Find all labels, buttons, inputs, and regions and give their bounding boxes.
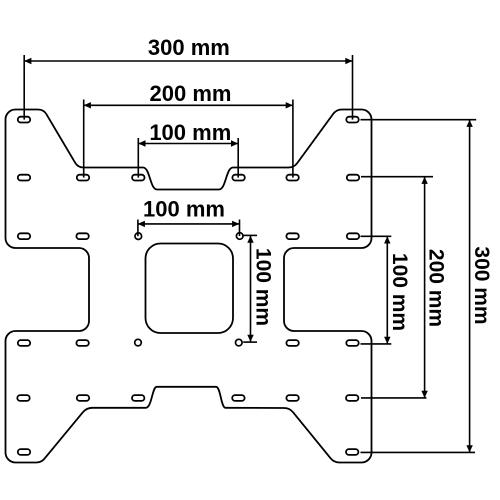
central square hole xyxy=(146,244,234,334)
slot R2C4 xyxy=(232,175,244,181)
dim D6 right 100mm: bottom arrowhead xyxy=(384,337,390,344)
dim D2 200mm: extension line left xyxy=(83,100,85,178)
dim D7 right 200mm: leader top xyxy=(361,176,433,178)
dim D5 central vertical 100mm: leader top xyxy=(243,234,257,236)
slot R3C6 xyxy=(347,233,359,239)
dim D3 100mm upper: left arrowhead xyxy=(138,140,145,146)
dim D1 300mm top: extension line right xyxy=(352,55,354,120)
slot R5C1 xyxy=(17,395,29,401)
slot R2C2 xyxy=(77,175,89,181)
dim D5 central vertical 100mm: top arrowhead xyxy=(247,236,253,243)
slot R2C5 xyxy=(286,175,298,181)
slot R3C2 xyxy=(76,233,88,239)
dim D4 100mm middle: left arrowhead xyxy=(138,221,145,227)
slot R1C6 xyxy=(346,117,358,123)
circle hole bottom-left xyxy=(135,339,142,346)
dim D5 central vertical 100mm: leader bottom xyxy=(243,341,257,343)
slot R5C2 xyxy=(77,395,89,401)
slot R2C3 xyxy=(132,175,144,181)
svg-text:100 mm: 100 mm xyxy=(149,120,231,145)
slot R4C1 xyxy=(18,340,30,346)
slot R3C5 xyxy=(286,233,298,239)
dim D1 300mm top: dimension line xyxy=(24,60,352,62)
dim D4 100mm middle: extension tick left xyxy=(137,220,139,237)
svg-text:300 mm: 300 mm xyxy=(148,35,230,60)
svg-text:300 mm: 300 mm xyxy=(470,246,493,324)
dim D2 200mm: left arrowhead xyxy=(84,102,91,108)
dim D4 100mm middle: right arrowhead xyxy=(232,221,239,227)
slot R2C6 xyxy=(347,175,359,181)
dim D2 200mm: extension line right xyxy=(292,100,294,178)
dim D3 100mm upper: right arrowhead xyxy=(231,140,238,146)
dim D4 100mm middle: dimension line xyxy=(138,223,240,225)
slot R4C2 xyxy=(76,340,88,346)
circle hole bottom-right xyxy=(236,339,243,346)
dim D7 right 200mm: top arrowhead xyxy=(421,177,427,184)
slot R4C5 xyxy=(286,340,298,346)
dim D1 300mm top: extension line left xyxy=(23,55,25,120)
dim D1 300mm top: right arrowhead xyxy=(345,58,352,64)
dim D8 right 300mm: leader top xyxy=(361,119,477,121)
slot R3C1 xyxy=(18,233,30,239)
dim D2 200mm: right arrowhead xyxy=(286,102,293,108)
plate outline xyxy=(6,110,372,463)
dim D3 100mm upper: extension line left xyxy=(137,138,139,178)
circle hole top-right xyxy=(236,233,243,240)
dim D7 right 200mm: dimension line xyxy=(424,177,426,398)
slot R5C6 xyxy=(346,395,358,401)
dim D5 central vertical 100mm: bottom arrowhead xyxy=(247,335,253,342)
dim D1 300mm top: left arrowhead xyxy=(24,58,31,64)
dim D8 right 300mm: leader bottom xyxy=(361,451,476,453)
slot R5C4 xyxy=(232,395,244,401)
dim D2 200mm: dimension line xyxy=(84,104,293,106)
dim D8 right 300mm: top arrowhead xyxy=(466,120,472,127)
slot R5C3 xyxy=(132,395,144,401)
dim D3 100mm upper: dimension line xyxy=(138,143,238,145)
slot R6C6 xyxy=(346,449,358,455)
slot R5C5 xyxy=(286,395,298,401)
dim D6 right 100mm: leader top xyxy=(361,235,392,237)
dim D8 right 300mm: bottom arrowhead xyxy=(466,445,472,452)
dim D6 right 100mm: dimension line xyxy=(386,236,388,344)
slot R6C1 xyxy=(18,449,30,455)
dim D6 right 100mm: leader bottom xyxy=(361,343,392,345)
svg-text:100 mm: 100 mm xyxy=(143,196,225,221)
dim D7 right 200mm: bottom arrowhead xyxy=(421,391,427,398)
slot R2C1 xyxy=(18,175,30,181)
svg-text:200 mm: 200 mm xyxy=(150,81,232,106)
dim D4 100mm middle: extension tick right xyxy=(239,220,241,237)
circle hole top-left xyxy=(135,233,142,240)
svg-text:100 mm: 100 mm xyxy=(388,253,411,331)
dim D6 right 100mm: top arrowhead xyxy=(384,236,390,243)
dim D7 right 200mm: leader bottom xyxy=(361,397,427,399)
dim D8 right 300mm: dimension line xyxy=(469,120,471,453)
dim D5 central vertical 100mm: dimension line xyxy=(250,235,252,342)
svg-text:200 mm: 200 mm xyxy=(425,249,448,327)
svg-text:100 mm: 100 mm xyxy=(252,248,275,326)
slot R4C6 xyxy=(346,340,358,346)
slot R1C1 xyxy=(18,117,30,123)
dim D3 100mm upper: extension line right xyxy=(237,138,239,178)
